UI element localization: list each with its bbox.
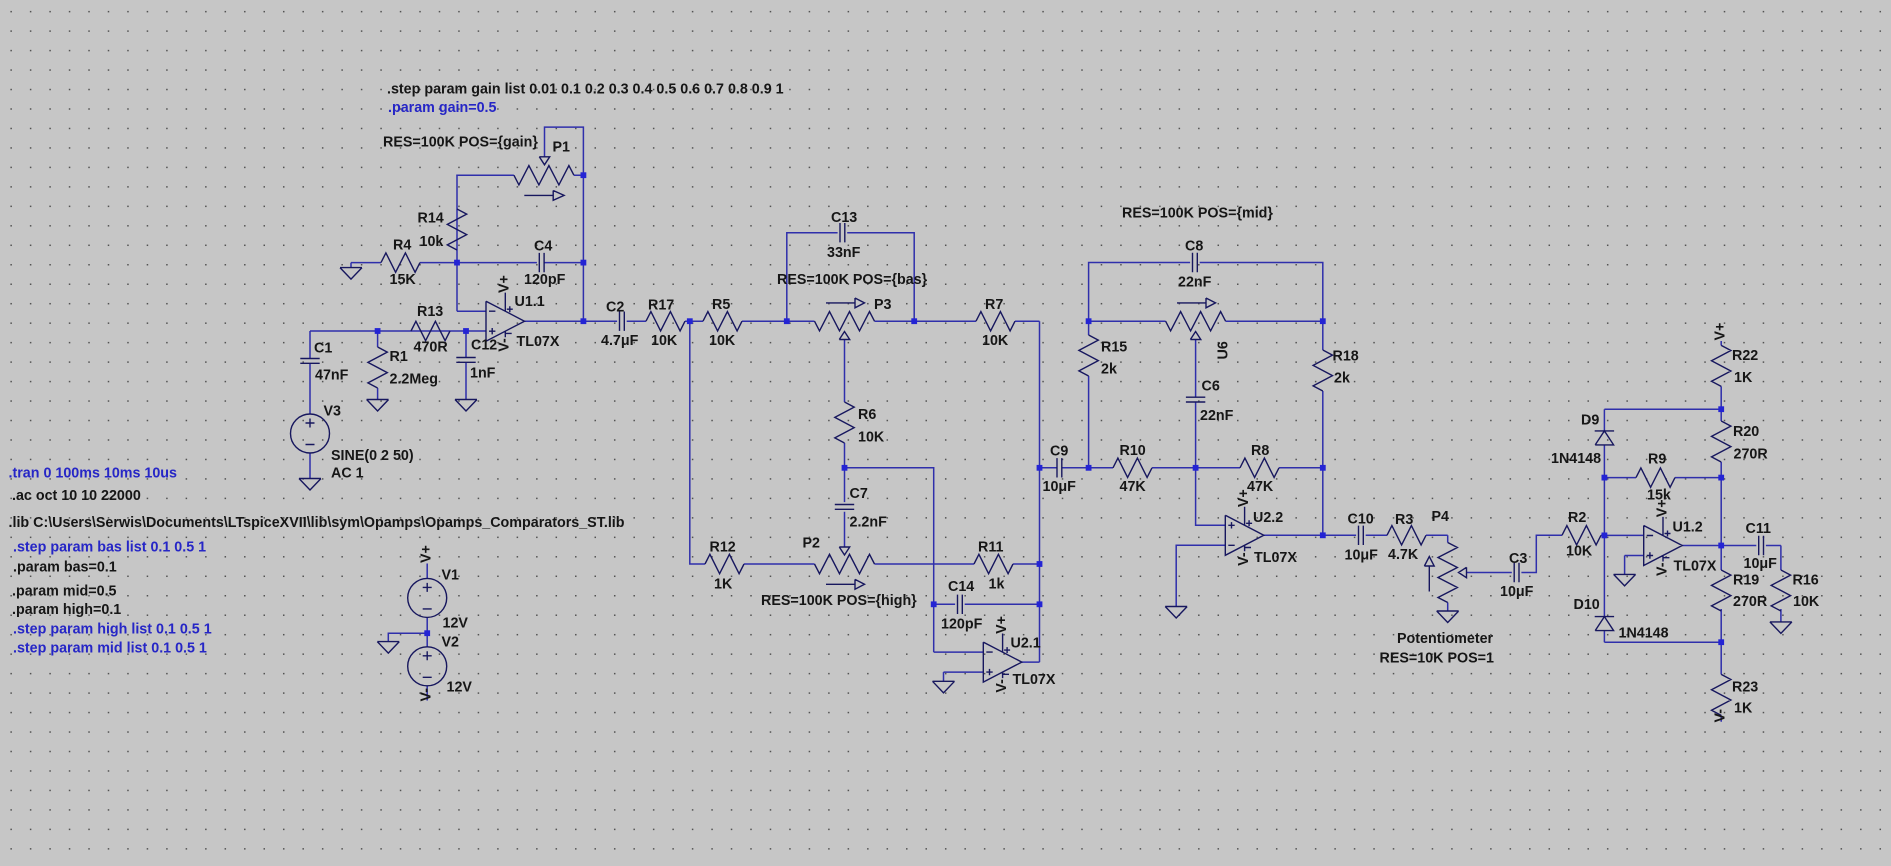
svg-text:SINE(0 2 50): SINE(0 2 50) — [331, 448, 414, 464]
svg-text:V+: V+ — [994, 616, 1010, 634]
svg-text:P1: P1 — [553, 140, 571, 156]
svg-text:1K: 1K — [1734, 701, 1753, 717]
svg-text:R4: R4 — [393, 238, 411, 254]
svg-text:Potentiometer: Potentiometer — [1397, 631, 1494, 647]
svg-text:U6: U6 — [1216, 341, 1232, 359]
svg-text:470R: 470R — [414, 340, 449, 356]
svg-text:U2.2: U2.2 — [1253, 510, 1283, 526]
svg-text:2.2nF: 2.2nF — [850, 515, 888, 531]
svg-text:10K: 10K — [709, 333, 736, 349]
svg-text:.step param high list 0.1 0.5: .step param high list 0.1 0.5 1 — [13, 622, 212, 638]
svg-text:C9: C9 — [1050, 444, 1068, 460]
svg-text:P3: P3 — [874, 297, 892, 313]
svg-text:RES=10K POS=1: RES=10K POS=1 — [1380, 651, 1494, 667]
svg-text:1K: 1K — [714, 577, 733, 593]
svg-text:33nF: 33nF — [827, 245, 861, 261]
svg-text:C7: C7 — [850, 486, 868, 502]
svg-text:V-: V- — [994, 679, 1010, 693]
svg-text:R22: R22 — [1732, 348, 1758, 364]
svg-text:V2: V2 — [442, 635, 460, 651]
svg-text:.param high=0.1: .param high=0.1 — [12, 602, 121, 618]
svg-text:C6: C6 — [1202, 379, 1220, 395]
svg-text:120pF: 120pF — [941, 617, 983, 633]
svg-text:.param bas=0.1: .param bas=0.1 — [13, 560, 117, 576]
svg-text:10K: 10K — [982, 333, 1009, 349]
svg-text:22nF: 22nF — [1200, 408, 1234, 424]
svg-text:22nF: 22nF — [1178, 275, 1212, 291]
svg-text:TL07X: TL07X — [517, 334, 560, 350]
svg-text:R11: R11 — [978, 540, 1003, 556]
svg-text:10μF: 10μF — [1500, 584, 1534, 600]
svg-text:.step param mid list 0.1 0.5 1: .step param mid list 0.1 0.5 1 — [13, 641, 207, 657]
svg-text:2.2Meg: 2.2Meg — [390, 372, 438, 388]
svg-text:.step param gain list 0.01 0.1: .step param gain list 0.01 0.1 0.2 0.3 0… — [387, 82, 784, 98]
svg-text:.step param bas list 0.1 0.5 1: .step param bas list 0.1 0.5 1 — [13, 540, 206, 556]
svg-text:R19: R19 — [1733, 573, 1759, 589]
svg-text:V-: V- — [1713, 709, 1729, 723]
svg-text:10K: 10K — [858, 430, 885, 446]
svg-text:U2.1: U2.1 — [1011, 636, 1041, 652]
svg-text:R14: R14 — [418, 211, 444, 227]
svg-text:1nF: 1nF — [470, 366, 496, 382]
svg-text:R10: R10 — [1120, 443, 1146, 459]
svg-text:.param gain=0.5: .param gain=0.5 — [388, 100, 497, 116]
svg-text:R18: R18 — [1333, 349, 1359, 365]
svg-text:R9: R9 — [1648, 452, 1666, 468]
svg-text:270R: 270R — [1734, 447, 1769, 463]
svg-text:V-: V- — [1654, 562, 1670, 576]
svg-text:R5: R5 — [712, 297, 730, 313]
svg-text:270R: 270R — [1733, 594, 1768, 610]
svg-text:.ac oct 10 10 22000: .ac oct 10 10 22000 — [12, 488, 141, 504]
svg-text:R16: R16 — [1793, 573, 1819, 589]
svg-text:C10: C10 — [1348, 512, 1374, 528]
svg-text:10k: 10k — [420, 234, 444, 250]
svg-text:C3: C3 — [1509, 551, 1527, 567]
svg-text:U1.2: U1.2 — [1673, 520, 1703, 536]
svg-text:C4: C4 — [534, 239, 552, 255]
svg-text:R3: R3 — [1395, 512, 1413, 528]
svg-text:C11: C11 — [1746, 521, 1771, 537]
svg-text:10K: 10K — [1793, 594, 1820, 610]
svg-text:RES=100K POS={gain}: RES=100K POS={gain} — [383, 135, 538, 151]
svg-text:.tran 0 100ms 10ms 10us: .tran 0 100ms 10ms 10us — [9, 466, 178, 482]
svg-text:1N4148: 1N4148 — [1619, 626, 1669, 642]
svg-text:15K: 15K — [390, 272, 417, 288]
svg-text:D9: D9 — [1581, 413, 1599, 429]
svg-text:RES=100K POS={high}: RES=100K POS={high} — [761, 593, 917, 609]
svg-text:R1: R1 — [390, 349, 408, 365]
svg-text:R15: R15 — [1101, 340, 1127, 356]
svg-text:R6: R6 — [858, 407, 876, 423]
svg-text:4.7μF: 4.7μF — [601, 333, 639, 349]
svg-text:D10: D10 — [1574, 597, 1600, 613]
svg-text:10μF: 10μF — [1744, 556, 1778, 572]
svg-text:2k: 2k — [1334, 371, 1350, 387]
svg-text:V-: V- — [1236, 552, 1252, 566]
svg-text:R13: R13 — [417, 304, 443, 320]
svg-text:.lib C:\Users\Serwis\Documents: .lib C:\Users\Serwis\Documents\LTspiceXV… — [9, 515, 625, 531]
svg-text:12V: 12V — [447, 680, 473, 696]
svg-text:C14: C14 — [948, 579, 974, 595]
svg-text:2k: 2k — [1101, 362, 1117, 378]
svg-text:120pF: 120pF — [524, 272, 566, 288]
svg-text:R7: R7 — [985, 297, 1003, 313]
svg-text:10K: 10K — [1566, 544, 1593, 560]
svg-text:U1.1: U1.1 — [515, 294, 545, 310]
svg-text:R12: R12 — [710, 540, 736, 556]
svg-text:V+: V+ — [418, 545, 434, 563]
svg-text:V1: V1 — [442, 568, 460, 584]
svg-text:TL07X: TL07X — [1254, 550, 1297, 566]
svg-text:TL07X: TL07X — [1674, 559, 1717, 575]
svg-text:V+: V+ — [497, 275, 513, 293]
svg-text:1k: 1k — [989, 577, 1005, 593]
svg-text:47nF: 47nF — [315, 368, 349, 384]
svg-text:V+: V+ — [1713, 323, 1729, 341]
svg-text:4.7K: 4.7K — [1388, 547, 1419, 563]
svg-text:1N4148: 1N4148 — [1551, 451, 1601, 467]
svg-text:C1: C1 — [314, 341, 332, 357]
svg-text:47K: 47K — [1120, 479, 1147, 495]
svg-text:15k: 15k — [1647, 488, 1671, 504]
svg-text:C8: C8 — [1185, 239, 1203, 255]
svg-text:V-: V- — [497, 338, 513, 352]
svg-text:RES=100K POS={bas}: RES=100K POS={bas} — [777, 272, 928, 288]
svg-text:C13: C13 — [831, 210, 857, 226]
svg-text:R20: R20 — [1733, 424, 1759, 440]
svg-text:P2: P2 — [803, 536, 821, 552]
svg-text:V3: V3 — [324, 404, 342, 420]
svg-text:R17: R17 — [648, 298, 674, 314]
svg-text:47K: 47K — [1247, 479, 1274, 495]
svg-text:AC 1: AC 1 — [331, 466, 364, 482]
svg-text:10μF: 10μF — [1345, 548, 1379, 564]
svg-text:P4: P4 — [1432, 509, 1450, 525]
svg-text:.param mid=0.5: .param mid=0.5 — [12, 584, 117, 600]
svg-text:TL07X: TL07X — [1013, 672, 1056, 688]
svg-text:1K: 1K — [1734, 370, 1753, 386]
svg-text:R23: R23 — [1732, 680, 1758, 696]
svg-text:V-: V- — [418, 688, 434, 702]
svg-text:10μF: 10μF — [1043, 479, 1077, 495]
svg-text:R8: R8 — [1251, 443, 1269, 459]
svg-text:C12: C12 — [471, 338, 497, 354]
svg-text:RES=100K POS={mid}: RES=100K POS={mid} — [1122, 206, 1273, 222]
svg-text:10K: 10K — [651, 333, 678, 349]
svg-text:C2: C2 — [606, 300, 624, 316]
svg-text:12V: 12V — [443, 616, 469, 632]
svg-text:R2: R2 — [1568, 510, 1586, 526]
